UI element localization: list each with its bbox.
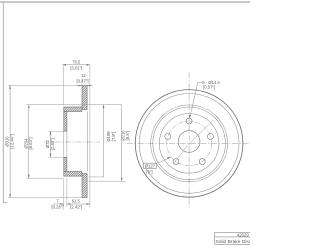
svg-text:[2.42"]: [2.42"] xyxy=(70,204,82,209)
section centerline xyxy=(44,141,100,143)
svg-text:[5"]: [5"] xyxy=(146,169,152,174)
svg-text:[0.47"]: [0.47"] xyxy=(77,79,89,84)
hub bore edges behind cut xyxy=(63,131,65,157)
svg-text:[8.5"]: [8.5"] xyxy=(125,131,130,141)
dim O204 left xyxy=(23,105,33,179)
bolt hole upper-left xyxy=(165,133,171,139)
dim 76.5 extension left xyxy=(62,65,64,106)
svg-text:12: 12 xyxy=(81,73,86,78)
drum inner circle xyxy=(159,114,219,174)
outer circle O316 xyxy=(135,90,243,198)
disc ring top (cut) xyxy=(82,86,87,110)
page border top xyxy=(0,1,250,3)
svg-text:[0.57"]: [0.57"] xyxy=(203,85,215,90)
svg-text:[3.01"]: [3.01"] xyxy=(70,65,82,70)
PCD circle xyxy=(167,121,212,166)
dim 12 xyxy=(77,73,94,86)
svg-text:61.5: 61.5 xyxy=(72,199,81,204)
page border left xyxy=(2,2,4,203)
chamfer circle xyxy=(139,93,239,193)
svg-text:[7.8"]: [7.8"] xyxy=(111,132,116,142)
hat face top (cut) xyxy=(64,112,67,132)
centering mark xyxy=(3,202,7,204)
bolt hole lower-right xyxy=(199,159,205,165)
disc ring bottom (cut) xyxy=(82,174,87,198)
vertical centerline xyxy=(188,73,190,209)
hat face bottom (cut) xyxy=(64,157,67,171)
dim extension right x=89.9 xyxy=(89,65,91,207)
svg-text:Ø127: Ø127 xyxy=(145,164,156,169)
drum wall bottom (cut) xyxy=(64,172,82,177)
dim 76.5 xyxy=(62,59,90,70)
svg-text:[2.83"]: [2.83"] xyxy=(50,138,55,150)
dim O216 bracket xyxy=(120,105,130,182)
drum wall top (cut) xyxy=(64,107,82,112)
drum edge behind cut xyxy=(86,112,88,172)
bolt hole lower-left xyxy=(173,159,179,165)
dim 7 xyxy=(52,199,64,210)
section trace line xyxy=(174,120,214,164)
dim O204 left extensions xyxy=(27,177,64,179)
shared extension line A xyxy=(27,104,122,106)
extension line B xyxy=(89,180,127,182)
bolt hole top xyxy=(186,118,192,124)
extension line C xyxy=(89,176,104,178)
svg-text:[12.44"]: [12.44"] xyxy=(9,134,14,148)
dim O71.5 xyxy=(45,131,55,157)
svg-text:[8.03"]: [8.03"] xyxy=(28,138,33,150)
dim O316 xyxy=(5,86,15,198)
center bore xyxy=(178,131,200,153)
svg-text:[0.28"]: [0.28"] xyxy=(52,204,64,209)
drum outer circle xyxy=(153,107,226,180)
friction inner circle xyxy=(151,105,228,182)
svg-text:76.5: 76.5 xyxy=(72,59,81,64)
PCD boxed label xyxy=(143,157,171,174)
horizontal centerline xyxy=(127,142,249,144)
svg-text:42029: 42029 xyxy=(237,232,250,237)
dim 61.5 xyxy=(67,199,90,210)
dim O71.5 extensions xyxy=(49,130,64,132)
svg-text:Solid Brake Disc: Solid Brake Disc xyxy=(215,239,250,245)
bolt hole upper-right xyxy=(207,133,213,139)
bottom dim extensions xyxy=(63,179,65,207)
dim O204 mid xyxy=(103,105,116,177)
bolt hole leader xyxy=(189,80,220,118)
dim O316 extensions xyxy=(8,85,82,87)
